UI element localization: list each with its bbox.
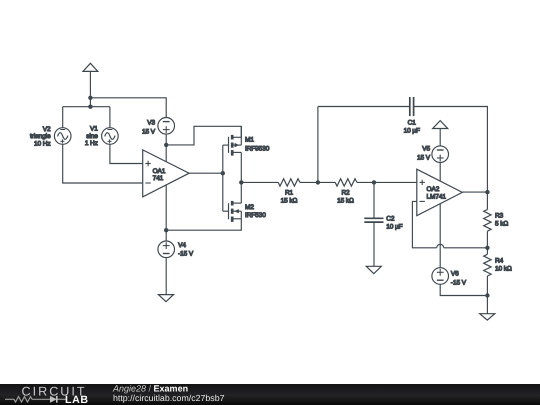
wire to V3 top (90, 98, 166, 118)
svg-text:R4: R4 (495, 258, 504, 265)
wire V1 top lead (109, 107, 111, 128)
wire M1 drain to output node (240, 152, 242, 182)
wire node to OA2 + input (374, 181, 417, 183)
wire OA2 output (462, 191, 487, 193)
node junction ground rail (485, 293, 489, 297)
svg-text:10 Hz: 10 Hz (34, 141, 50, 148)
wire node up to C1 rail (317, 107, 319, 183)
svg-text:LAB: LAB (65, 394, 89, 405)
wire OA1 V- pin (165, 185, 167, 230)
resistor R3 5 kOhm (484, 210, 491, 232)
svg-text:M2: M2 (245, 204, 254, 211)
voltage source V4 -15 V (158, 241, 175, 258)
node output junction (239, 180, 243, 184)
voltage source V1 (sine 1 Hz) (102, 128, 119, 145)
wire gate bus (222, 145, 224, 211)
node junction top (88, 96, 92, 100)
wire V4 to ground (165, 258, 167, 295)
wire R4 top lead (486, 248, 488, 255)
capacitor C2 10 uF (364, 218, 383, 222)
svg-text:5 kΩ: 5 kΩ (495, 221, 508, 228)
node junction V1/V2 (88, 105, 92, 109)
svg-text:-15 V: -15 V (451, 280, 467, 287)
voltage source V5 15 V (432, 146, 449, 163)
svg-text:V1: V1 (90, 125, 98, 132)
node junction R2/C2 (372, 180, 376, 184)
wire R3 top lead (486, 192, 488, 209)
wire C2 to ground (373, 222, 375, 266)
op-amp OA2 LM741 (417, 169, 463, 215)
wire C1 to OA2 output node (414, 107, 488, 193)
svg-text:-15 V: -15 V (178, 251, 194, 258)
footer bar (0, 384, 540, 405)
node junction -15V (164, 228, 168, 232)
node junction R3/R4 (485, 246, 489, 250)
wire R1 to node (300, 181, 318, 183)
svg-text:V4: V4 (178, 242, 186, 249)
wire rail to C1 (318, 106, 410, 108)
wire V3 bottom to OA1 V+ (165, 134, 167, 162)
svg-text:R2: R2 (341, 189, 350, 196)
resistor R2 15 kOhm (335, 179, 357, 186)
svg-text:15 V: 15 V (142, 128, 156, 135)
transistor M1 IRF9530 (PMOS) (229, 126, 242, 155)
svg-text:IRF530: IRF530 (245, 212, 266, 219)
wire V2-V1 top rail (63, 106, 110, 108)
resistor R1 15 kOhm (278, 179, 300, 186)
wire R3 bottom lead (486, 231, 488, 248)
svg-text:1 Hz: 1 Hz (85, 140, 98, 147)
power flag (top left) (83, 63, 98, 107)
voltage source V6 -15 V (432, 268, 449, 285)
wire M1 gate lead (223, 144, 229, 146)
svg-text:http://circuitlab.com/c27bsb7: http://circuitlab.com/c27bsb7 (113, 393, 225, 403)
svg-text:M1: M1 (245, 137, 254, 144)
node junction R1/R2 (316, 180, 320, 184)
wire OA2 V- pin to V6 (439, 204, 441, 268)
wire V5 to OA2 V+ (439, 163, 441, 182)
ground (V4) (158, 295, 173, 302)
voltage source V2 (triangle 10 Hz) (54, 128, 71, 145)
svg-text:sine: sine (86, 133, 98, 140)
svg-text:C2: C2 (386, 215, 395, 222)
svg-text:15 V: 15 V (417, 154, 431, 161)
wire feedback to R3/R4 node (444, 247, 488, 249)
power flag (above V5) (433, 121, 448, 146)
svg-text:V3: V3 (147, 120, 155, 127)
voltage source V3 15 V (158, 118, 175, 135)
wire OA2 - input feedback (412, 201, 436, 247)
wire V3 junction to M1 source rail (166, 126, 241, 145)
wire R4 bottom lead (486, 276, 488, 296)
svg-text:triangle: triangle (30, 133, 51, 140)
svg-text:741: 741 (153, 175, 164, 182)
wire V1 to OA1 + input (110, 144, 143, 163)
svg-text:IRF9530: IRF9530 (245, 145, 270, 152)
transistor M2 IRF530 (NMOS) (229, 201, 242, 222)
wire V2 to OA1 - input (63, 144, 143, 183)
logo wire with resistor and diode (5, 396, 66, 403)
op-amp OA1 741 (143, 150, 189, 197)
wire V2 top lead (62, 107, 64, 128)
svg-text:10 µF: 10 µF (386, 223, 402, 230)
svg-text:C1: C1 (408, 120, 417, 127)
svg-text:OA2: OA2 (427, 186, 440, 193)
node junction below V3 (164, 143, 168, 147)
wire node down to C2 (373, 182, 375, 218)
wire hop over V6 lead (437, 244, 444, 247)
wire junction to V4 (165, 230, 167, 241)
wire R1/R2 node to R2 (318, 181, 335, 183)
wire OA1 output to gate bus (189, 172, 223, 174)
resistor R4 10 kOhm (484, 254, 491, 276)
ground (C2) (366, 266, 381, 273)
wire R2 to node (357, 181, 374, 183)
wire M2 gate lead (223, 210, 229, 212)
svg-text:R3: R3 (495, 213, 504, 220)
svg-text:V2: V2 (43, 126, 51, 133)
node junction OA2 output (485, 190, 489, 194)
svg-text:15 kΩ: 15 kΩ (281, 197, 298, 204)
wire V6 to ground rail (440, 284, 487, 295)
svg-text:10 kΩ: 10 kΩ (495, 266, 512, 273)
wire M2 drain up to output node (240, 182, 242, 203)
svg-text:OA1: OA1 (153, 168, 166, 175)
wire to ground (486, 296, 488, 314)
svg-text:R1: R1 (285, 189, 294, 196)
svg-text:10 µF: 10 µF (404, 128, 420, 135)
wire M2 source down to -15V rail (166, 219, 241, 230)
node junction gate bus (221, 171, 225, 175)
svg-text:15 kΩ: 15 kΩ (337, 197, 354, 204)
svg-text:LM741: LM741 (427, 193, 447, 200)
svg-text:V6: V6 (451, 270, 459, 277)
svg-text:V5: V5 (422, 146, 430, 153)
ground (R4) (480, 314, 495, 320)
wire output node to R1 (241, 181, 278, 183)
capacitor C1 10 uF (410, 97, 414, 116)
